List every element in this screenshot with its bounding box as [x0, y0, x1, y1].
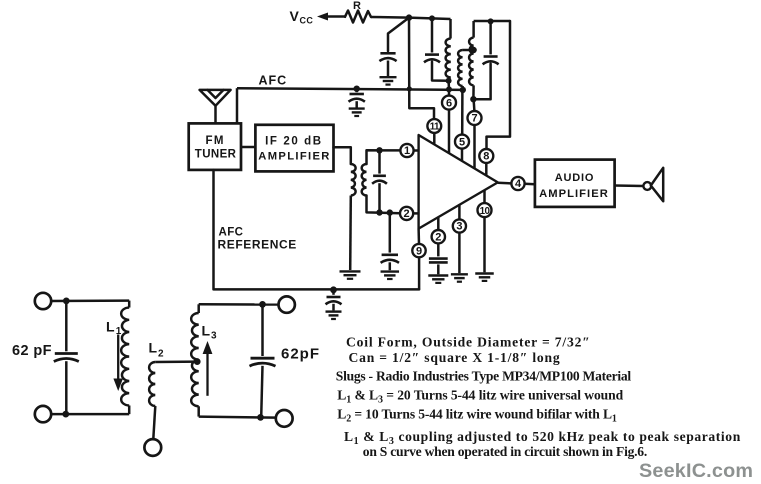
capacitor 62pF left	[54, 354, 79, 362]
wire AFC ref cap stem	[332, 290, 335, 295]
L3 sense arrow	[203, 341, 213, 396]
wire L3 bottom	[197, 406, 200, 416]
wire pin 2 to amplifier	[413, 212, 418, 215]
wire AFC reference rail	[214, 170, 420, 289]
svg-text:62pF: 62pF	[281, 346, 320, 363]
block AUDIO AMPLIFIER	[535, 160, 615, 207]
wire amplifier to pin 10	[483, 190, 486, 203]
resistor R	[345, 11, 371, 23]
pin 2 input	[400, 207, 413, 220]
svg-text:AUDIO: AUDIO	[555, 172, 594, 184]
wire pin 2b to capacitor	[437, 243, 440, 256]
wire L2 top tap	[155, 360, 197, 363]
svg-text:3: 3	[211, 331, 217, 342]
capacitor 62pF right	[250, 358, 276, 366]
wire secondary top rail	[367, 150, 401, 164]
svg-text:62 pF: 62 pF	[12, 343, 52, 359]
svg-text:AFC: AFC	[259, 74, 288, 88]
wire primary to ground	[349, 196, 352, 271]
capacitor bypass at Vcc	[379, 53, 396, 61]
label R	[353, 0, 361, 12]
inductor primary	[351, 164, 356, 196]
inductor coil1	[446, 39, 451, 78]
node tap on winding R	[470, 47, 476, 53]
wire amplifier to pin 3	[458, 204, 461, 219]
terminal T2	[35, 406, 51, 422]
wire right cap lower	[261, 366, 262, 418]
svg-text:3: 3	[456, 221, 462, 233]
wire top rail 2	[474, 20, 510, 23]
svg-text:Coil Form, Outside Diameter =: Coil Form, Outside Diameter = 7/32″	[346, 335, 591, 350]
node AFC-cap junction	[354, 86, 360, 92]
label AFC	[259, 74, 288, 88]
inductor L1	[121, 308, 129, 406]
pin 2 bias	[432, 230, 445, 243]
inductor secondary	[362, 164, 367, 196]
wire winding R top	[472, 21, 475, 38]
svg-text:L: L	[202, 323, 211, 339]
wire winding R bottom	[472, 85, 475, 99]
svg-text:Slugs - Radio Industries Type: Slugs - Radio Industries Type MP34/MP100…	[336, 369, 632, 384]
wire pin 11 to amplifier	[433, 133, 436, 145]
svg-text:AMPLIFIER: AMPLIFIER	[258, 151, 330, 163]
node tank cap top	[376, 147, 382, 153]
pin 10	[478, 203, 492, 217]
node rail crossing	[407, 86, 412, 91]
node rail2-cap junction	[488, 18, 494, 24]
svg-text:L: L	[149, 340, 158, 356]
svg-text:CC: CC	[300, 16, 314, 26]
node pin7 junction	[470, 96, 476, 102]
power label Vcc	[290, 8, 314, 26]
svg-text:8: 8	[483, 151, 489, 163]
label L2	[149, 340, 165, 360]
wire pin 7 to amplifier	[473, 125, 476, 169]
node L2-L3 tap	[194, 358, 201, 365]
wire top rail to coil T1	[409, 18, 451, 19]
svg-text:5: 5	[459, 136, 465, 148]
pin 11	[427, 119, 441, 133]
wire left cap upper	[65, 301, 68, 351]
svg-text:FM: FM	[205, 135, 224, 147]
ground G4	[326, 312, 342, 319]
node right cap top	[259, 301, 266, 308]
terminal T3	[279, 296, 295, 312]
label 62pF right	[281, 346, 320, 363]
terminal T4	[276, 410, 293, 427]
wire AFC rail	[237, 88, 463, 90]
wire L1 top	[128, 301, 131, 308]
wire amplifier apex to pin 4	[498, 182, 512, 185]
antenna	[200, 90, 231, 124]
svg-text:REFERENCE: REFERENCE	[218, 237, 297, 251]
ground G7	[451, 274, 468, 281]
label L3	[202, 323, 218, 342]
svg-text:L2​ = 10 Turns 5-44 litz wire: L2​ = 10 Turns 5-44 litz wire wound bifi…	[337, 407, 617, 425]
svg-text:2: 2	[435, 231, 441, 243]
svg-text:L1​ & L3​ = 20 Turns 5-44 litz: L1​ & L3​ = 20 Turns 5-44 litz wire univ…	[337, 388, 623, 406]
node decoupling junction	[387, 209, 393, 215]
wire cap Ct upper	[378, 150, 381, 173]
svg-text:7: 7	[471, 113, 477, 125]
wire diagonal junction to bypass cap	[388, 18, 409, 51]
wire to pin 5	[461, 90, 464, 135]
svg-text:Can = 1/2″ square X 1-1/8″ lon: Can = 1/2″ square X 1-1/8″ long	[349, 350, 561, 365]
capacitor Ca	[424, 55, 440, 63]
ground G8	[475, 274, 494, 281]
label L1	[106, 319, 122, 338]
wire to pin 7	[472, 99, 475, 111]
wire L2 bottom	[153, 406, 155, 439]
svg-text:R: R	[353, 0, 361, 12]
pin 8	[479, 149, 493, 163]
inductor L3	[191, 313, 199, 406]
L1 sense arrow	[113, 335, 123, 392]
wire Vcc junction down to pin 11	[409, 18, 434, 120]
capacitor AFC bypass	[349, 94, 365, 102]
capacitor Ct	[372, 176, 387, 184]
capacitor AFC reference	[326, 297, 342, 304]
pin 3	[453, 219, 466, 232]
label AFC REFERENCE	[218, 227, 297, 252]
svg-text:AMPLIFIER: AMPLIFIER	[539, 188, 609, 200]
svg-text:SeekIC.com: SeekIC.com	[639, 460, 753, 482]
wire pin 10 to ground	[483, 217, 486, 272]
speaker	[643, 168, 663, 201]
ground G6	[428, 276, 448, 283]
pin 7	[468, 111, 482, 125]
capacitor C2	[381, 255, 399, 263]
amplifier U1	[419, 135, 498, 229]
wire pin 5 to amplifier	[461, 149, 464, 162]
node left cap bottom	[62, 411, 69, 418]
node Vcc junction	[406, 14, 412, 20]
wire pin 6 to amplifier	[448, 110, 451, 154]
wire pin 4 to audio amplifier	[525, 183, 535, 186]
terminal T5	[144, 439, 161, 456]
node AFC-coil1 junction	[446, 86, 452, 92]
wire cap to ground	[387, 61, 390, 77]
node rail1-cap junction	[429, 15, 435, 21]
wire amplifier to pin 9	[417, 229, 420, 245]
wire AFC cap stem	[355, 89, 358, 93]
wire winding M bottom	[461, 86, 464, 90]
wire winding M top tap	[463, 49, 474, 52]
pin 5	[455, 135, 469, 149]
terminal T1	[35, 293, 51, 309]
wire cap Ct lower	[378, 183, 381, 212]
svg-text:V: V	[290, 8, 300, 24]
inductor winding R	[469, 38, 474, 86]
wire pin 3 to ground	[458, 233, 461, 274]
svg-text:10: 10	[480, 206, 491, 217]
wire amplifier to pin 2b	[437, 217, 440, 230]
watermark SeekIC.com	[639, 460, 753, 482]
wire to pin 6	[448, 89, 451, 95]
wire FM tuner to IF amplifier	[241, 146, 255, 149]
node AFC ref cap junction	[330, 286, 337, 293]
label 62 pF left	[12, 343, 52, 359]
wire rail2 down to pin 8	[487, 21, 511, 149]
wire Cb bottom elbow	[473, 64, 490, 99]
svg-text:TUNER: TUNER	[195, 149, 237, 161]
wire left tank top rail	[51, 299, 129, 302]
pin 9	[412, 244, 425, 257]
wire audio amplifier to speaker	[615, 184, 644, 187]
svg-text:L: L	[106, 319, 115, 335]
svg-text:1: 1	[404, 145, 410, 157]
wire coil1 bottom to AFC rail	[447, 81, 450, 90]
wire right tank top rail	[199, 303, 279, 306]
wire pin 9 down	[418, 257, 421, 289]
ground G1	[380, 77, 397, 84]
wire pin 1 to amplifier	[414, 149, 419, 152]
svg-text:2: 2	[158, 349, 164, 360]
wire IF output	[334, 147, 351, 164]
node tank cap bottom	[376, 209, 382, 215]
wire L1 bottom	[128, 406, 131, 415]
pin 1	[400, 144, 413, 157]
svg-text:on S curve when operated in ci: on S curve when operated in circuit show…	[363, 444, 647, 459]
wire Ca bottom elbow	[432, 62, 449, 81]
svg-text:2: 2	[404, 208, 410, 220]
wire to ground G4	[332, 304, 335, 311]
inductor L2	[149, 362, 155, 406]
block FM TUNER	[189, 123, 241, 169]
wire pin 8 to amplifier	[485, 163, 488, 176]
wire right tank bottom rail	[199, 417, 276, 418]
ground G5	[381, 272, 400, 279]
svg-text:11: 11	[430, 122, 440, 133]
notes text block	[336, 335, 741, 460]
svg-text:9: 9	[416, 245, 422, 257]
node left cap top	[63, 298, 70, 305]
node coil1 bottom	[446, 78, 452, 84]
wire to ground G2	[355, 101, 358, 107]
block IF 20dB AMPLIFIER	[255, 125, 333, 172]
inductor winding M	[458, 50, 463, 86]
Vcc feed arrow	[317, 13, 346, 21]
capacitor Cb	[483, 57, 499, 65]
wire C2 to ground	[389, 262, 392, 270]
wire to ground G6	[437, 264, 440, 274]
wire to capacitor C2	[389, 213, 392, 253]
capacitor C pin2	[429, 259, 448, 263]
node right cap bottom	[257, 414, 264, 421]
wire right cap upper	[261, 304, 264, 356]
wire rail to capacitor Ca	[431, 18, 434, 52]
wire coil1 top feed	[449, 19, 452, 39]
svg-text:4: 4	[515, 178, 522, 190]
wire left cap lower	[65, 361, 68, 414]
wire resistor to Vcc junction	[371, 16, 409, 19]
wire L3 top	[197, 304, 200, 313]
wire secondary bottom rail	[367, 196, 400, 214]
wire AFC rail to FM tuner	[236, 88, 239, 123]
svg-text:6: 6	[446, 97, 452, 109]
pin 4	[511, 177, 524, 190]
ground G3	[340, 271, 361, 278]
ground G2	[349, 109, 365, 116]
wire left tank bottom rail	[51, 413, 129, 416]
wire rail2 to capacitor Cb	[489, 21, 492, 54]
node AFC rail end	[460, 87, 466, 93]
svg-text:IF 20 dB: IF 20 dB	[265, 136, 323, 148]
pin 6	[442, 96, 456, 110]
